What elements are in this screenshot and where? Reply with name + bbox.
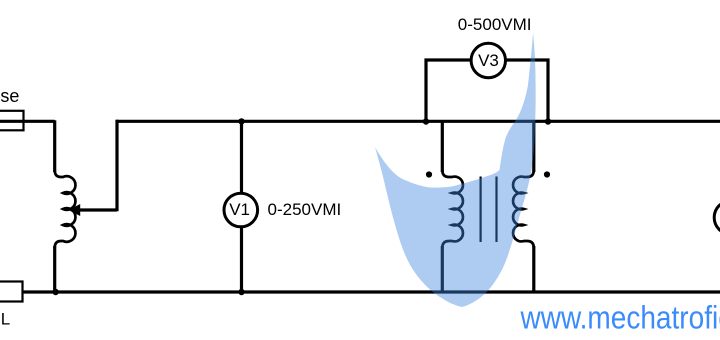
svg-text:0-250VMI: 0-250VMI — [268, 200, 342, 219]
wire: neutral rail — [23, 290, 720, 293]
junction dot V1 bottom — [238, 289, 244, 295]
wire: V3 right lead — [506, 60, 548, 121]
svg-text:0-500VMI: 0-500VMI — [458, 15, 532, 34]
wire: transformer primary bottom stub — [441, 246, 444, 292]
junction dot V1 top — [238, 118, 244, 124]
watermark swoosh — [375, 33, 536, 307]
voltmeter V2 (clipped at right edge) — [714, 201, 720, 235]
junction dot V3 right — [545, 118, 551, 124]
terminal block L (neutral) — [0, 282, 23, 302]
svg-text:V3: V3 — [478, 51, 499, 70]
transformer core line left — [480, 177, 482, 243]
junction dot V3 left — [423, 118, 429, 124]
wire: wiper to riser — [78, 208, 117, 211]
svg-text:www.mechatrofice.com: www.mechatrofice.com — [520, 300, 720, 336]
variac wiper arrow — [69, 205, 80, 216]
wire: fuse down to variac top — [53, 120, 56, 172]
wire: V1 branch vertical — [240, 121, 243, 292]
wire: transformer secondary bottom stub — [532, 246, 535, 292]
wire: V3 left lead — [426, 60, 470, 121]
wire: phase input through fuse — [0, 120, 55, 123]
wire: transformer secondary top stub — [532, 121, 535, 172]
voltmeter V1 — [224, 193, 258, 227]
transformer T1 primary winding — [442, 170, 463, 248]
variac winding (autotransformer coil) — [55, 170, 76, 248]
svg-text:Fuse: Fuse — [0, 86, 19, 106]
wire: riser up to top rail — [115, 120, 118, 211]
transformer core line right — [495, 177, 497, 243]
junction dot neutral-variac — [52, 289, 58, 295]
svg-text:L: L — [1, 309, 10, 328]
polarity dot secondary — [544, 171, 550, 177]
wire: top rail — [116, 120, 720, 123]
wire: transformer primary top stub — [441, 121, 444, 172]
wire: variac bottom to neutral rail — [53, 246, 56, 292]
svg-text:V1: V1 — [229, 200, 250, 219]
voltmeter V3 — [471, 43, 505, 77]
transformer T1 secondary winding — [513, 170, 534, 248]
fuse F1 body — [0, 111, 24, 131]
polarity dot primary — [426, 171, 432, 177]
